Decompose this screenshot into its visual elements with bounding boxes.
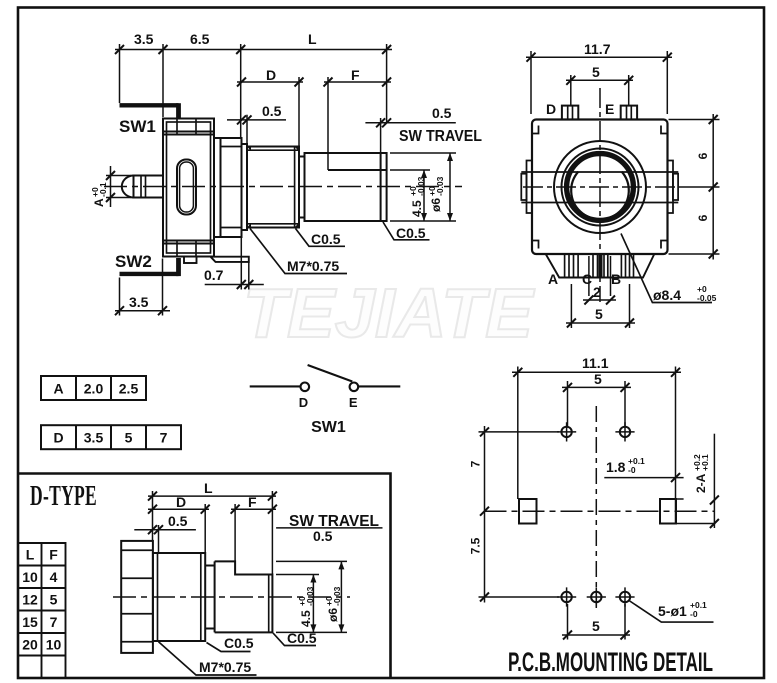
svg-text:4.5: 4.5 <box>299 610 313 627</box>
svg-text:4: 4 <box>50 569 58 585</box>
svg-text:D-TYPE: D-TYPE <box>30 480 97 512</box>
svg-text:12: 12 <box>22 592 38 608</box>
svg-text:C0.5: C0.5 <box>287 630 317 646</box>
svg-text:TEJIATE: TEJIATE <box>243 274 535 352</box>
svg-text:2.0: 2.0 <box>84 381 104 397</box>
svg-text:5: 5 <box>592 64 600 80</box>
svg-text:F: F <box>248 494 257 510</box>
svg-text:5: 5 <box>594 371 602 387</box>
svg-text:L: L <box>26 547 35 563</box>
svg-text:20: 20 <box>22 637 38 653</box>
svg-text:10: 10 <box>46 637 62 653</box>
svg-text:11.1: 11.1 <box>582 355 609 371</box>
svg-text:5-ø1: 5-ø1 <box>658 603 687 619</box>
svg-text:E: E <box>605 101 614 117</box>
svg-text:D: D <box>299 395 308 410</box>
svg-text:-0: -0 <box>628 465 636 475</box>
svg-text:11.7: 11.7 <box>584 41 611 57</box>
svg-text:5: 5 <box>592 618 600 634</box>
svg-text:L: L <box>204 480 213 496</box>
svg-text:SW1: SW1 <box>311 419 346 436</box>
svg-text:-0.03: -0.03 <box>416 176 426 196</box>
svg-text:2-A: 2-A <box>694 473 708 493</box>
svg-text:-0: -0 <box>690 609 698 619</box>
svg-text:3.5: 3.5 <box>84 430 104 446</box>
svg-text:1.8: 1.8 <box>606 459 626 475</box>
svg-text:7: 7 <box>50 614 58 630</box>
svg-text:M7*0.75: M7*0.75 <box>287 258 339 274</box>
svg-text:2.5: 2.5 <box>119 381 139 397</box>
svg-text:E: E <box>349 395 358 410</box>
svg-text:P.C.B.MOUNTING DETAIL: P.C.B.MOUNTING DETAIL <box>508 647 713 677</box>
svg-text:F: F <box>49 547 58 563</box>
svg-text:7: 7 <box>469 460 483 467</box>
svg-text:5: 5 <box>50 592 58 608</box>
svg-text:A: A <box>92 198 106 207</box>
svg-text:15: 15 <box>22 614 38 630</box>
svg-text:0.7: 0.7 <box>204 267 224 283</box>
svg-text:-0.03: -0.03 <box>305 586 315 606</box>
svg-text:0.5: 0.5 <box>262 103 282 119</box>
svg-text:5: 5 <box>125 430 133 446</box>
svg-text:SW TRAVEL: SW TRAVEL <box>289 513 379 530</box>
svg-text:2: 2 <box>593 284 601 300</box>
svg-text:3.5: 3.5 <box>134 31 154 47</box>
svg-text:C0.5: C0.5 <box>311 231 341 247</box>
svg-text:C0.5: C0.5 <box>396 225 426 241</box>
svg-text:D: D <box>266 67 276 83</box>
svg-text:10: 10 <box>22 569 38 585</box>
svg-text:SW TRAVEL: SW TRAVEL <box>399 128 482 145</box>
svg-text:SW1: SW1 <box>119 117 156 136</box>
svg-text:5: 5 <box>595 306 603 322</box>
svg-text:B: B <box>611 271 621 287</box>
svg-text:0.5: 0.5 <box>313 528 333 544</box>
svg-text:3.5: 3.5 <box>129 294 149 310</box>
svg-text:A: A <box>53 381 63 397</box>
svg-text:6: 6 <box>696 152 710 159</box>
svg-text:0.5: 0.5 <box>168 513 188 529</box>
svg-text:0.5: 0.5 <box>432 105 452 121</box>
svg-text:D: D <box>53 430 63 446</box>
svg-text:L: L <box>308 31 317 47</box>
svg-text:SW2: SW2 <box>115 252 152 271</box>
svg-text:6: 6 <box>696 214 710 221</box>
svg-text:-0.1: -0.1 <box>98 182 108 197</box>
svg-text:-0.03: -0.03 <box>332 586 342 606</box>
svg-text:D: D <box>176 494 186 510</box>
svg-text:-0.03: -0.03 <box>435 176 445 196</box>
svg-text:D: D <box>546 101 556 117</box>
svg-text:C0.5: C0.5 <box>224 635 254 651</box>
svg-text:-0.05: -0.05 <box>697 293 717 303</box>
svg-text:7: 7 <box>160 430 168 446</box>
svg-text:F: F <box>351 67 360 83</box>
svg-text:ø6: ø6 <box>326 608 340 622</box>
svg-text:A: A <box>548 271 558 287</box>
svg-text:+0.1: +0.1 <box>700 454 710 471</box>
svg-text:6.5: 6.5 <box>190 31 210 47</box>
svg-text:ø6: ø6 <box>429 198 443 212</box>
svg-text:C: C <box>582 271 592 287</box>
svg-text:7.5: 7.5 <box>469 537 483 554</box>
svg-text:M7*0.75: M7*0.75 <box>199 659 251 675</box>
svg-text:4.5: 4.5 <box>410 200 424 217</box>
svg-text:ø8.4: ø8.4 <box>653 287 681 303</box>
